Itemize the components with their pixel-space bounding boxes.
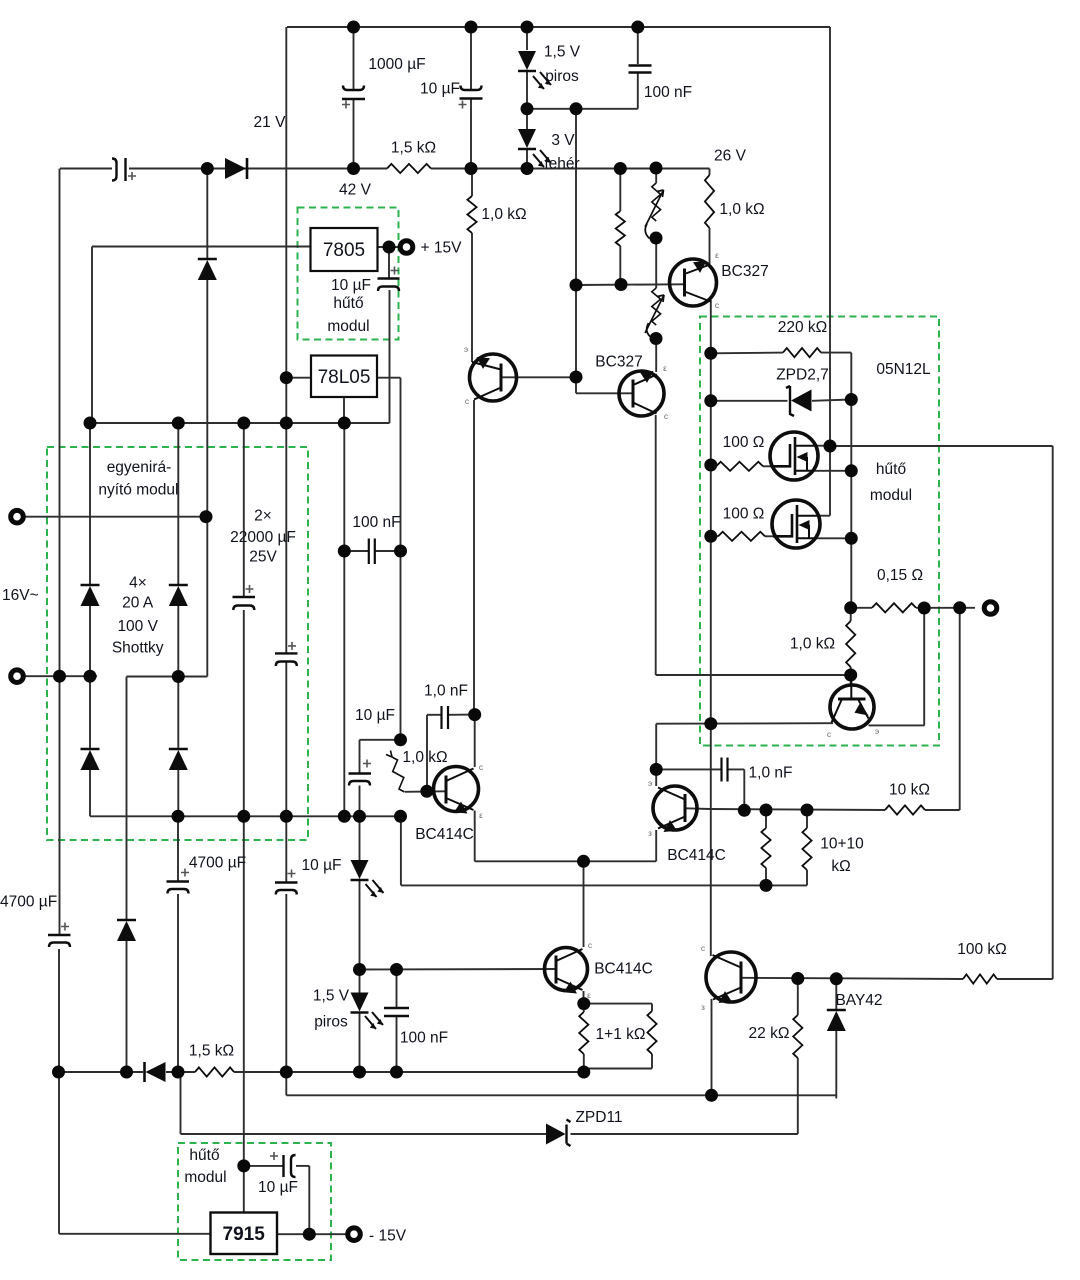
wire LED3 leads on column x=359 [359,816,361,862]
junction node 42V rail / trimmer column [650,162,663,175]
svg-text:fehér: fehér [544,156,579,173]
diode on AC column x=207 [198,258,217,261]
wire LED column x=527 top [526,27,528,50]
svg-text:1,0 nF: 1,0 nF [749,765,793,782]
LED 3 V fehér [518,129,536,148]
wire 10uF(16V) top link from x=400 column [360,739,401,741]
junction node 0.15R right / T5 emitter column [918,602,931,615]
MOSFET 1 05N12L [770,432,818,480]
resistor 1+1 kΩ right [647,1011,656,1054]
svg-text:4700 µF: 4700 µF [189,855,246,872]
wire BC414C-2 emitter down and left to BC414C-1 emitter [655,830,657,861]
svg-text:4×: 4× [129,574,147,591]
svg-text:78L05: 78L05 [318,367,371,388]
wire 10+10k left resistor leads [765,810,767,828]
wire AC input 1 from terminal to bridge column [25,516,206,518]
diode D1 on 42V rail [246,158,249,179]
wire BC327-1 collector column x=711 long run [710,300,712,724]
junction node 42V rail / AC column [201,162,214,175]
junction node negative rail / x286 [280,810,293,823]
wire resistor column x=620 bottom [619,246,621,285]
junction node negative rail / x400 column [394,810,407,823]
wire 7805 output to +15V terminal [377,246,399,248]
wire bridge column A x=90 lower [89,676,91,748]
junction node top rail / LED string [521,21,534,34]
svg-text:26 V: 26 V [714,148,747,165]
wire 26V corner down to 1.0k resistor and BC327-1 emitter [709,169,711,176]
wire resistor column x=620 top [619,169,621,212]
junction node ground rail / x126 [120,1066,133,1079]
terminal + output [984,602,997,615]
capacitor 4700 µF (column x=178) [167,880,190,882]
wire mid rail stub of BAY42 [835,1031,837,1099]
junction node output / sense column [953,601,966,614]
svg-text:100 nF: 100 nF [352,514,400,531]
wire 78L05 gnd column x=344 down to negative rail [343,423,345,816]
resistor 10+10 kΩ right [802,828,811,870]
junction node AC2 / x59 column [53,670,66,683]
svg-text:3 V: 3 V [551,132,575,149]
junction node ground rail / LED4 [353,1066,366,1079]
svg-text:10 µF: 10 µF [302,857,342,874]
junction node 1.0k bottom / T5 collector [844,669,857,682]
wire 42V rail between input cap and 1.5k resistor [129,168,387,170]
wire 22k column x=798 [797,979,799,1016]
junction node T6 base / 22k [791,972,804,985]
wire ground rail y=1072 diode to 1.5k [166,1071,195,1073]
module box: 7805 hűtő modul (green dashed) [298,208,399,340]
capacitor 1,0 nF #2 [720,758,722,782]
resistor 22 kΩ [793,1015,802,1058]
svg-text:ε: ε [479,810,483,820]
wire BC414C-2 collector node down from y=769 [655,769,657,786]
transistor T5 hűtő modul (NPN) [830,685,874,729]
capacitor 10 µF (7805 output) [378,277,400,279]
wire 10uF(16V) bottom to negative rail [359,786,361,817]
resistor 1,5 kΩ (42V rail) [387,164,431,173]
wire gate-protection column x=851 down to source rail [850,353,852,608]
junction node gate row 2 [704,530,717,543]
wire 10uF(top) top lead [470,27,472,90]
LED 1,5 V piros (top) [518,51,536,70]
junction node mid rail / T6 emitter [705,1089,718,1102]
wire bridge AC column x=207.8 below diode [206,280,208,677]
svg-text:- 15V: - 15V [369,1227,407,1244]
wire column x=577 to T1 base junction [575,285,577,377]
wire bridge column B x=178 lower [177,677,179,749]
junction node zener right [845,393,858,406]
svg-text:21 V: 21 V [254,114,287,131]
junction node 42V rail / 10uF [465,162,478,175]
junction node 7805 output [383,241,396,254]
junction node trimmer lower tap / BC327-2 emitter [650,332,663,345]
wire BC414C-1 base node to base [405,790,445,793]
junction node BC414C-2 collector / 1.0nF-2 [650,763,663,776]
junction node ground rail / 100nF [390,1066,403,1079]
junction node base row / resistor x620 [615,278,628,291]
wire column x=178 below rail to 4700uF [177,816,179,881]
capacitor 1,0 nF #1 [440,706,442,729]
wire 10+10k right resistor leads [806,810,808,828]
wire T6 base row y=978.5 to 100k and output column [742,978,963,979]
wire main column x=286 to 21V rail [285,378,287,423]
junction node LED junction [521,102,534,115]
wire column x=286 below 10uF to ground rail [285,894,287,1072]
capacitor 4700 µF (column x=59) [48,934,71,936]
resistor 100 Ω gate 2 [718,532,765,541]
wire output sense column x=960 [959,608,961,810]
svg-text:25V: 25V [249,549,277,566]
wire T6 emitter down to mid rail [711,999,713,1095]
wire 22000uF column 1 x=244 lower to rail [243,610,245,816]
junction node ground rail / x178 [172,1066,185,1079]
terminal AC input 2 [11,670,24,683]
trimmer resistor 1,0 kΩ (BC414C-1 base) [392,757,405,792]
transistor BC327 #2 (PNP) [619,371,664,416]
wire 100nF branch x=344 to x=401 at y=551 [344,550,368,552]
svg-text:1,5 V: 1,5 V [313,988,350,1005]
LED 1,5 V piros (bottom) [351,993,369,1012]
resistor 1,0 kΩ (26V to BC327-1 E) [705,175,714,228]
junction node base row / 1.0nF-2 [738,804,751,817]
resistor 100 kΩ [963,974,997,983]
wire 7805 10uF cap bottom down to gnd rail corner [389,290,391,423]
svg-text:100 kΩ: 100 kΩ [957,941,1007,958]
junction node 220k-zener column left [704,394,717,407]
svg-text:BAY42: BAY42 [835,992,882,1009]
wire 7915 10uF right lead down to output [296,1165,309,1167]
wire bridge column A x=90 middle [89,605,91,676]
wire column x=178 below 4700uF to ZPD11 rail corner [177,894,179,1072]
junction node negative rail / 22000uF-1 [237,810,250,823]
wire bridge AC column x=207.8 upper segment [206,169,208,259]
trimmer resistor 1 column x=656 [652,183,661,221]
junction node T6 base / BAY42 [830,972,843,985]
svg-text:ZPD2,7: ZPD2,7 [776,367,829,384]
svg-text:16V~: 16V~ [2,587,39,604]
wire 42V rail y=168.5 left segment [60,168,112,170]
svg-text:7915: 7915 [223,1224,266,1245]
wire MOSFET1 source to column x=851 [812,470,851,472]
svg-text:1000 µF: 1000 µF [368,56,425,73]
wire 1+1k loop bottom [651,1054,653,1069]
svg-text:э: э [464,344,468,354]
wire LED column between red and white LED [526,72,528,132]
junction node 42V rail / 1000uF [347,162,360,175]
svg-text:100 nF: 100 nF [400,1030,448,1047]
wire BC414C-2 base row y=810 with 10k to output column [686,807,710,810]
wire 100nF(bottom) column x=396.5 [396,970,398,1008]
junction node base row / 10+10k right [801,804,814,817]
resistor 220 kΩ [783,348,821,357]
svg-text:hűtő: hűtő [333,295,363,312]
junction node 42V rail / LED string [521,162,534,175]
wire negative rail y=816 from bridge corner to x=400 column [90,815,401,817]
wire MOSFET1 drain to rail [816,445,830,447]
svg-text:BC414C: BC414C [667,847,726,864]
svg-text:4700 µF: 4700 µF [0,894,57,911]
junction node top rail / 1000uF [347,21,360,34]
wire BC414C-3 emitter down to 1+1k top node [583,991,585,1004]
svg-text:100 Ω: 100 Ω [723,506,765,523]
transistor T1 (PNP, mirrored) [470,354,517,401]
junction node MOSFET2 source [845,532,858,545]
wire BC414C-3 collector up to emitter-node of pair [583,861,585,947]
wire 1.0nF-1 left lead down to base node [426,715,428,792]
wire 22000uF column 2 x=286 upper [285,423,287,653]
transistor BC414C #2 (NPN mirrored) [653,786,697,830]
junction node 7915 top pin / 10uF [237,1159,250,1172]
wire trimmer column x=656 segments [655,169,657,184]
svg-text:100 Ω: 100 Ω [723,434,765,451]
wire hűtő transistor base row y=724 [656,722,833,725]
junction node top rail / 100nF [631,21,644,34]
wire 0.15R row y=608 to output terminal [851,607,872,609]
resistor 1+1 kΩ left [579,1012,588,1054]
wire column x=126.5 down to ground rail [126,677,128,920]
svg-text:1,5 kΩ: 1,5 kΩ [189,1043,234,1060]
module box: 7915 hűtő modul (green dashed) [178,1143,331,1260]
svg-text:э: э [648,778,652,788]
capacitor 1000 µF [343,86,364,91]
svg-text:1,5 V: 1,5 V [544,44,581,61]
transistor BC414C #3 (NPN) [545,948,588,991]
svg-text:nyító modul: nyító modul [98,482,178,499]
resistor unnamed column x=620 [616,211,625,246]
junction node AC2 / bridge A [84,670,97,683]
junction node ground rail / x286 [280,1066,293,1079]
Shottky diode B upper [169,584,188,587]
wire column x=711 from hűtő base row to T6 collector [710,724,712,956]
junction node base row / 10+10k left [760,804,773,817]
wire 22000uF column 1 x=244 upper [243,423,245,596]
capacitor 100 nF (bottom LED) [384,1007,409,1009]
svg-text:20 A: 20 A [122,595,154,612]
wire bridge column B x=178 middle [177,605,179,677]
junction node 21V rail / 22000uF-1 [237,417,250,430]
resistor 1,5 kΩ (ground rail) [195,1067,234,1076]
transistor T6 (NPN) [706,952,756,1002]
transistor BC414C #1 (NPN) [434,767,479,812]
wire 1+1k left resistor leads [583,1004,585,1012]
capacitor 10 µF (column x=286) [275,881,298,883]
wire ZPD2.7 row y=400 [711,400,788,402]
wire 78L05 input from column x=286 [286,377,311,379]
junction node trimmer mid tap [650,232,663,245]
capacitor 10 µF (7915) [282,1155,284,1177]
junction node gate row 1 [704,459,717,472]
svg-text:10 kΩ: 10 kΩ [889,782,930,799]
junction node T1 base [570,371,583,384]
wire top rail y=27 from 287 to 830 [287,26,830,28]
junction node 1.0nF-1 / T1 collector column [468,708,481,721]
transistor BC327 #1 (PNP) [670,259,717,306]
junction node MOSFET1 source [845,464,858,477]
junction node 100nF-LED link / x577 column [570,102,583,115]
wire T1 base lead [500,376,576,378]
wire x=400 column rail corner down to y=885 row [400,816,402,885]
wire 10uF(top) bottom lead to 42V rail [470,99,472,169]
wire column x=472 from 42V rail to 1.0k resistor and T1 emitter [471,169,473,197]
svg-text:ε: ε [663,363,667,373]
Shottky diode A upper [81,584,100,587]
Shottky diode A lower [81,748,100,751]
terminal AC input 1 [11,510,24,523]
junction node 42V rail / resistor x620 [614,162,627,175]
wire ground rail y=1072 left of diode [59,1071,144,1073]
svg-text:10 µF: 10 µF [258,1179,298,1196]
wire BC327-1 base row y=285 [576,283,683,286]
wire 7915 top pin node to 10uF [244,1165,283,1167]
capacitor 22000 µF #1 [233,596,256,598]
IC regulator 7915 [211,1213,278,1255]
svg-text:0,15 Ω: 0,15 Ω [877,567,923,584]
junction node 100nF left [338,545,351,558]
junction node 21V rail / bridge B [172,417,185,430]
wire bridge column A x=90 upper [89,423,91,584]
wire 1.0nF-2 from collector node [656,768,721,770]
junction node emitter link / BC414C-3 collector column [577,855,590,868]
module box: egyenirányító modul (green dashed) [47,447,308,840]
svg-text:2×: 2× [254,508,272,525]
resistor 10 kΩ [885,805,925,814]
wire column x=286 ground rail corner to mid rail y=1095 [285,1072,287,1095]
svg-text:1,0 kΩ: 1,0 kΩ [790,636,835,653]
wire MOSFET drain link down and to FET2 [829,446,831,516]
svg-text:22000 µF: 22000 µF [230,529,296,546]
svg-text:ε: ε [715,250,719,260]
junction node ground rail / x59 [52,1066,65,1079]
wire right rail x=830 from top to MOSFET drains [829,27,831,446]
svg-text:1,0 nF: 1,0 nF [424,683,468,700]
capacitor input coupling (42V rail, polarized horizontal) [112,159,117,181]
svg-text:modul: modul [184,1169,226,1186]
junction node 7915 output / 10uF return [303,1228,316,1241]
svg-text:modul: modul [327,318,369,335]
svg-text:1,0 kΩ: 1,0 kΩ [402,749,447,766]
junction node ground rail / 1+1k bottom [577,1066,590,1079]
svg-text:220 kΩ: 220 kΩ [778,319,828,336]
svg-text:10 µF: 10 µF [355,707,395,724]
svg-text:ZPD11: ZPD11 [575,1109,622,1126]
capacitor 10 µF (16V, column x=359) [349,772,372,774]
resistor 0,15 Ω [872,603,916,612]
junction node BC327-1 collector / 220k [704,347,717,360]
svg-text:BC327: BC327 [595,354,642,371]
svg-text:з: з [648,828,652,838]
svg-text:hűtő: hűtő [876,461,906,478]
wire 7805 output 10uF branch down [388,247,390,278]
wire MOSFET2 source to column x=851 [815,537,851,539]
capacitor 100 nF (top) [629,64,652,66]
wire AC node 2 horizontal to x=126 column [127,676,179,678]
wire BAY42 top lead [835,979,837,1009]
wire hűtő transistor emitter to 0.15R right node [869,724,925,726]
junction node y885 row / 10+10k left [760,879,773,892]
wire node row y=969 to BC414C-3 base [360,968,556,971]
LED unnamed (column x=359) [351,860,369,879]
resistor 10+10 kΩ left [761,828,770,868]
resistor 100 Ω gate 1 [716,462,763,471]
junction node negative rail / 10uF16V [353,810,366,823]
svg-text:42 V: 42 V [339,182,372,199]
junction node BC414C-1 base [420,785,433,798]
svg-text:10+10: 10+10 [820,836,864,853]
wire 1+1k loop top [584,1003,652,1005]
module box: MOSFET hűtő modul (green dashed) [700,317,939,746]
svg-text:22 kΩ: 22 kΩ [749,1025,790,1042]
svg-text:BC327: BC327 [721,263,768,280]
IC regulator 78L05 [311,356,377,398]
wire 22000uF column 2 x=286 lower to rail [285,662,287,817]
capacitor 22000 µF #2 [275,652,298,654]
wire 7915 output to -15V terminal [277,1233,347,1235]
junction node 10uF16V / x400 column [394,733,407,746]
svg-text:Shottky: Shottky [112,640,164,657]
svg-text:BC414C: BC414C [594,961,653,978]
svg-text:kΩ: kΩ [831,858,850,875]
wire 78L05 ground pin down to rail [343,397,345,423]
wire 42V rail from 1.5k resistor to 26V corner [431,168,710,170]
junction node x577 / BC327-1 base row [570,279,583,292]
IC regulator 7805 [311,228,378,271]
wire 1000uF top lead [353,27,355,90]
terminal -15V output [348,1228,361,1241]
junction node 21V rail / x286 column [280,417,293,430]
wire 78L05 output right then down column x=400 [377,377,401,379]
diode (column x=126) [117,919,136,922]
wire BC327-2 collector down to y=675 row [655,415,657,675]
svg-text:1+1 kΩ: 1+1 kΩ [596,1026,646,1043]
wire AC input 2 from terminal [25,675,97,677]
wire BC414C-1 emitter lead down [474,811,476,862]
junction node AC1 / bridge column [200,510,213,523]
resistor 1,0 kΩ (42V rail to T1 emitter) [467,196,476,233]
wire T1 base junction to BC327-2 base [575,377,577,393]
junction node MOSFET1 drain rail [824,440,837,453]
capacitor 100 nF (78L05) [368,539,370,565]
junction node 100nF right [394,545,407,558]
svg-text:100 nF: 100 nF [644,84,692,101]
wire 1.0k column from source rail to T5 collector [850,608,852,621]
svg-text:1,0 kΩ: 1,0 kΩ [481,206,526,223]
junction node BC414C-3 emitter / 1+1k top [577,997,590,1010]
junction node negative rail / bridge B column [172,810,185,823]
wire T1 collector column x=474 down to 1.0nF node and BC414C-1 [473,400,475,715]
svg-text:piros: piros [314,1014,348,1031]
svg-text:egyenirá-: egyenirá- [107,459,172,476]
wire 100R gate row 1 [711,465,716,466]
resistor 1,0 kΩ (source rail to T5) [846,621,855,667]
wire 1.0nF-1 row y=715 [427,714,441,716]
junction node AC-B / bridge B [172,670,185,683]
wire main column x=286 from top rail to 78L05 input [285,27,287,378]
wire drain node to far right column [830,445,1053,447]
wire 7805 input from corner x=92 [92,246,311,248]
zener diode ZPD2,7 [786,386,794,416]
junction node hűtő base row / x711 [704,717,717,730]
junction node LED node / 100nF column [390,963,403,976]
wire 100nF(top) down lead and link to LED junction [637,27,639,64]
svg-text:з: з [701,1002,705,1012]
terminal +15V output [400,241,413,254]
junction node negative rail / 78L05 gnd column [338,810,351,823]
wire 1000uF bottom lead to 42V rail [353,99,355,169]
zener diode ZPD11 [567,1120,571,1147]
wire LED column below white LED to 42V rail [526,150,528,169]
svg-text:1,5 kΩ: 1,5 kΩ [391,140,436,157]
trimmer resistor 2 column x=656 [652,288,661,325]
